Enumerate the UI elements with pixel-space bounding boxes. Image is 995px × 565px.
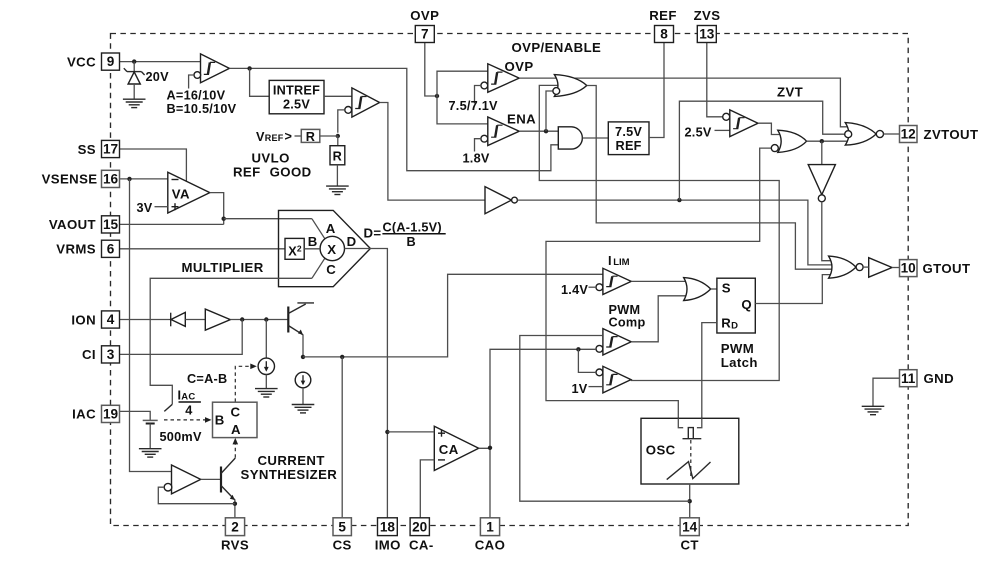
svg-text:8: 8 (660, 27, 668, 42)
svg-text:1V: 1V (572, 382, 588, 396)
ground (R2) (326, 186, 349, 194)
svg-text:7.5V: 7.5V (615, 125, 642, 139)
ground (battery) (139, 449, 162, 457)
svg-text:VCC: VCC (67, 54, 96, 69)
resistor R1 (box) (301, 129, 320, 142)
svg-text:B: B (308, 234, 318, 249)
wire: Rd input from OSC (702, 323, 717, 428)
svg-text:CURRENT: CURRENT (258, 453, 325, 468)
op-amp OVP comparator 7.5/7.1V (475, 64, 520, 104)
node Q2 emitter (233, 502, 237, 506)
pin 17 SS (102, 140, 120, 157)
pin 18 IMO (bottom) (378, 518, 398, 536)
pin 8 REF (top) (655, 26, 674, 43)
svg-text:C=A-B: C=A-B (187, 372, 227, 386)
pin 9 VCC (102, 53, 120, 70)
op-amp CA (current amp) (434, 426, 478, 470)
svg-text:VAOUT: VAOUT (49, 217, 96, 232)
svg-text:OVP: OVP (410, 8, 439, 23)
pin 13 ZVS (top) (697, 26, 716, 43)
wire: VA output to VAOUT node (210, 193, 224, 225)
bubble ZVT NOR output (876, 130, 883, 137)
svg-text:9: 9 (107, 54, 115, 69)
wire: down to current source 1 (265, 320, 267, 359)
ground (I1) (255, 389, 278, 397)
svg-text:5: 5 (338, 519, 346, 534)
svg-text:B=10.5/10V: B=10.5/10V (167, 102, 237, 116)
transistor Q1 (288, 303, 314, 357)
svg-text:16: 16 (103, 172, 119, 187)
OSC internal: input feet (678, 418, 683, 427)
pin 7 OVP (top) (415, 26, 434, 43)
wire: OR to S (711, 288, 717, 290)
ZVT OR gate (778, 130, 807, 152)
node CA output (488, 446, 492, 450)
svg-text:1.4V: 1.4V (561, 283, 588, 297)
svg-text:Comp: Comp (609, 315, 646, 329)
pin 11 GND (right) (900, 370, 918, 387)
op-amp ILIM comparator (596, 268, 631, 294)
svg-text:ENA: ENA (507, 111, 536, 126)
wire: Q2 emitter feedback to buffer bubble (158, 487, 235, 504)
transistor Q2 (201, 458, 236, 518)
wire: OSC line to ZVT OR bubble input (546, 148, 771, 428)
svg-text:VSENSE: VSENSE (42, 172, 98, 187)
wire: CA+ input (387, 431, 434, 433)
current source I2 (295, 372, 311, 404)
wire: branch to INTREF (250, 68, 270, 96)
wire: CI pin 3 up to ION line (120, 320, 243, 355)
bubble ZVT OR lower input (771, 145, 778, 152)
wire: REF GOOD line to right side (517, 200, 837, 265)
OSC internal: comparator plunger (688, 428, 693, 439)
buffer (current synthesizer) (164, 465, 201, 494)
wire: CA output to CAO pin 1 (479, 448, 490, 518)
wire: PWM comp output to S OR gate (631, 296, 690, 342)
pin 14 CT (bottom) (680, 518, 699, 536)
OR gate (OVP/ENA) (554, 75, 586, 97)
node ION line / CI riser (240, 317, 244, 321)
svg-text:IMO: IMO (375, 538, 401, 553)
wire: CA- pin 20 (420, 460, 434, 518)
block X squared (285, 238, 304, 259)
svg-text:VREF: VREF (256, 130, 284, 144)
wire: ZVS pin 13 down to 2.5V comparator (707, 42, 723, 116)
svg-text:Latch: Latch (721, 355, 758, 370)
ground (zener) (123, 99, 146, 107)
wire: buffer output to transistor Q1 base (230, 319, 287, 321)
svg-text:SS: SS (78, 142, 96, 157)
svg-text:17: 17 (103, 142, 118, 157)
wire: ION pin 4 to diode (120, 319, 171, 321)
op-amp UVLO comparator (A=16/10V B=10.5/10V) (189, 54, 230, 89)
block INTREF 2.5V (269, 80, 324, 113)
wire: multiplier A input (224, 218, 312, 220)
wire: multiplier C input line from below (150, 278, 312, 404)
node Q1 emitter / CS line (301, 355, 305, 359)
wire: REF GOOD branch up to ZVT NOR bubble input (679, 101, 845, 200)
buffer (GTOUT) (869, 258, 892, 278)
AND gate (ENA) (558, 127, 582, 149)
svg-text:12: 12 (901, 127, 917, 142)
svg-text:ION: ION (71, 312, 96, 327)
svg-text:15: 15 (103, 217, 119, 232)
wire: diode to buffer (185, 319, 205, 321)
pin 5 CS (bottom) (333, 518, 351, 536)
svg-text:GND: GND (924, 371, 955, 386)
wire: VREF to R1 (295, 135, 302, 137)
dashed: synth C output to current source 1 (235, 366, 249, 402)
svg-text:2.5V: 2.5V (685, 125, 712, 139)
battery 500mV (143, 420, 158, 448)
bubble GTOUT NOR output (856, 264, 863, 271)
svg-text:IAC: IAC (72, 407, 96, 422)
svg-text:OVP: OVP (505, 59, 534, 74)
OSC internal: sawtooth (667, 462, 711, 480)
node R divider (336, 134, 340, 138)
wire: buffer to GTOUT pin 10 (863, 266, 869, 268)
svg-text:S: S (722, 280, 731, 295)
svg-text:RVS: RVS (221, 538, 249, 553)
svg-text:LIM: LIM (613, 257, 629, 268)
wire: REF GOOD comp output down to buffer (380, 103, 485, 201)
resistor R2 (box) (337, 136, 339, 146)
svg-text:B: B (407, 235, 416, 249)
svg-text:C: C (231, 404, 241, 419)
svg-text:GTOUT: GTOUT (923, 261, 971, 276)
wire: 1V comp feedback to OR middle input (539, 85, 779, 380)
svg-text:20V: 20V (146, 70, 170, 84)
pin 3 CI (102, 346, 120, 363)
svg-text:PWM: PWM (721, 341, 754, 356)
wire: branch down to 1V comp bubble (578, 349, 596, 372)
pin 4 ION (102, 311, 120, 328)
svg-text:CT: CT (681, 538, 699, 553)
node VAOUT/multiplier A (222, 217, 226, 221)
pin 20 CA- (bottom) (410, 518, 429, 536)
wire: REF pin 8 down to 7.5V REF block (649, 42, 664, 137)
op-amp 1V comparator (596, 366, 631, 393)
wire: inverter output down to GTOUT NOR input 1 (822, 202, 838, 261)
wire: ILIM output to S OR gate (631, 280, 690, 282)
block current synthesizer C=A-B (213, 402, 258, 437)
svg-text:INTREF: INTREF (273, 83, 320, 97)
wire: ENA node up to OR bubble input (546, 91, 553, 131)
node REF GOOD branch (677, 198, 681, 202)
wire: VSENSE pin 16 to VA inverting input (118, 178, 168, 180)
svg-text:REF: REF (649, 8, 677, 23)
svg-text:OVP/ENABLE: OVP/ENABLE (512, 40, 602, 55)
svg-text:I: I (608, 254, 612, 268)
svg-text:A=16/10V: A=16/10V (167, 89, 226, 103)
wire: UVLO output to AND gate (via long route) (229, 68, 558, 170)
pin 6 VRMS (102, 240, 120, 257)
OR gate (latch S input) (684, 278, 711, 301)
svg-text:ZVT: ZVT (777, 84, 803, 99)
svg-text:UVLO: UVLO (252, 150, 290, 165)
op-amp ENA comparator 1.8V (475, 117, 520, 152)
op-amp REF GOOD comparator (345, 88, 380, 117)
buffer (REF GOOD) with output bubble (485, 187, 512, 214)
ground (I2) (292, 405, 315, 413)
svg-text:3V: 3V (137, 201, 153, 215)
node ENA output (544, 129, 548, 133)
wire: OVP comp output long line to ZVT NOR (519, 78, 853, 127)
pin 12 ZVTOUT (right) (900, 126, 918, 143)
svg-text:13: 13 (699, 27, 715, 42)
svg-text:CA: CA (439, 442, 459, 457)
svg-text:1: 1 (486, 519, 494, 534)
bubble on OR lower input (553, 88, 560, 95)
svg-text:>: > (285, 129, 293, 143)
svg-text:6: 6 (107, 241, 115, 256)
svg-text:500mV: 500mV (160, 430, 202, 444)
NOR gate (ZVTOUT) (845, 123, 876, 146)
svg-text:CS: CS (333, 538, 352, 553)
wire: CT ramp to PWM comp + input (520, 336, 690, 502)
svg-text:A: A (231, 422, 241, 437)
wire: INTREF to REF GOOD comparator (324, 95, 352, 97)
svg-text:14: 14 (682, 519, 698, 534)
node CA line split (576, 347, 580, 351)
node CS pin junction (340, 355, 344, 359)
wire: R2 to ground (336, 165, 338, 186)
svg-text:CAO: CAO (475, 538, 506, 553)
svg-text:SYNTHESIZER: SYNTHESIZER (241, 467, 338, 482)
svg-text:7.5/7.1V: 7.5/7.1V (449, 99, 499, 113)
node VCC junction (132, 59, 136, 63)
wire: VRMS pin 6 to X2 (120, 248, 286, 250)
block 7.5V REF (608, 122, 649, 155)
svg-text:OSC: OSC (646, 442, 676, 457)
svg-text:REF GOOD: REF GOOD (233, 165, 312, 180)
node ION line / current source 1 (264, 317, 268, 321)
svg-text:2.5V: 2.5V (283, 97, 310, 111)
svg-text:18: 18 (380, 519, 396, 534)
wire: VSENSE long line down to current synthesizer buffer (130, 179, 172, 472)
multiplier inner chevron + X circle (312, 219, 325, 240)
svg-text:REF: REF (616, 139, 642, 153)
inverter (down) (808, 165, 835, 195)
wire: OR output down to GTOUT NOR (587, 86, 837, 270)
switch blade IAC/4 (164, 404, 172, 411)
wire: multiplier D output to IMO vertical (345, 249, 388, 518)
wire: NOR output to ZVTOUT pin 12 (884, 133, 900, 135)
pin 10 GTOUT (right) (900, 260, 918, 277)
svg-text:4: 4 (107, 312, 115, 327)
pin 19 IAC (102, 405, 120, 422)
svg-text:ZVTOUT: ZVTOUT (924, 127, 979, 142)
wire: IAC pin 19 line (120, 411, 151, 420)
buffer (ION) (205, 309, 230, 330)
svg-text:B: B (215, 412, 225, 427)
wire: R divider junction up to REF GOOD inverting input (338, 110, 345, 133)
wire: OSC bottom to CT pin 14 (689, 484, 691, 518)
svg-text:1.8V: 1.8V (463, 152, 490, 166)
svg-text:IAC: IAC (178, 389, 196, 403)
svg-text:A: A (326, 221, 336, 236)
block PWM latch (717, 278, 755, 333)
wire: R1 to junction (320, 135, 338, 137)
wire: VAOUT pin 15 line (120, 223, 224, 225)
op-amp PWM comparator (596, 329, 631, 355)
svg-text:MULTIPLIER: MULTIPLIER (182, 260, 264, 275)
svg-text:R: R (306, 130, 315, 144)
svg-text:19: 19 (103, 407, 119, 422)
svg-text:3: 3 (107, 347, 115, 362)
svg-text:11: 11 (901, 371, 916, 386)
svg-text:20: 20 (412, 519, 427, 534)
wire: SS pin 17 to VA (120, 149, 187, 181)
current source I1 (circle w/ down arrow) (258, 358, 274, 388)
pin 16 VSENSE (102, 170, 120, 187)
wire: Q output to GTOUT NOR (755, 275, 838, 304)
dashed: IAC to synth B input (164, 419, 206, 421)
NOR gate (GTOUT) (829, 256, 856, 278)
wire: CS line to ILIM comparator (303, 274, 603, 357)
svg-text:10: 10 (901, 261, 916, 276)
node OVP input split (435, 94, 439, 98)
svg-text:4: 4 (185, 404, 192, 418)
svg-text:Q: Q (741, 297, 752, 312)
wire: CA output line to PWM comp bubble (490, 349, 596, 447)
svg-text:R: R (333, 149, 342, 163)
block OSC (641, 418, 739, 484)
IC boundary dashed border (111, 34, 909, 526)
node UVLO output branch (247, 66, 251, 70)
svg-text:VA: VA (172, 187, 190, 202)
pin 2 RVS (bottom) (225, 518, 244, 536)
wire: GND pin 11 to ground (873, 378, 900, 406)
wire: 2.5V comp output to ZVT OR (758, 123, 786, 134)
svg-text:7: 7 (421, 27, 429, 42)
zener diode 20V (124, 68, 145, 99)
op-amp VA (voltage error amp) (168, 172, 210, 213)
svg-text:VRMS: VRMS (56, 242, 96, 257)
wire: ZVT OR output to NOR and inverter (807, 140, 853, 142)
svg-text:CI: CI (82, 347, 96, 362)
wire: VCC pin 9 to UVLO comparator (120, 61, 201, 63)
diode (ION) (171, 312, 186, 326)
svg-text:CA-: CA- (409, 538, 434, 553)
wire: OVP pin 7 down to comparators (425, 42, 437, 96)
wire: AND output to 7.5V REF (582, 137, 608, 139)
dashed: Q2 collector to synth A input (234, 443, 236, 458)
multiplier body (pentagon) (279, 210, 371, 286)
node CT junction (688, 499, 692, 503)
svg-text:2: 2 (231, 519, 239, 534)
pin 15 VAOUT (102, 216, 120, 233)
node IMO / CA+ (385, 430, 389, 434)
svg-text:D: D (347, 234, 357, 249)
svg-text:ZVS: ZVS (694, 8, 721, 23)
ground (GND pin) (862, 406, 885, 414)
svg-text:X: X (327, 242, 336, 257)
svg-text:D=: D= (364, 225, 382, 240)
wire: zener lead from VCC node (133, 62, 135, 72)
svg-text:C(A-1.5V): C(A-1.5V) (383, 220, 442, 234)
wire: CS pin 5 (341, 357, 343, 518)
bubble ZVT NOR middle input (845, 131, 852, 138)
svg-text:C: C (326, 262, 336, 277)
node VSENSE junction (127, 177, 131, 181)
wire: ENA comp output to AND (519, 130, 558, 132)
op-amp 2.5V ZVT comparator (723, 110, 758, 137)
pin 1 CAO (bottom) (480, 518, 499, 536)
